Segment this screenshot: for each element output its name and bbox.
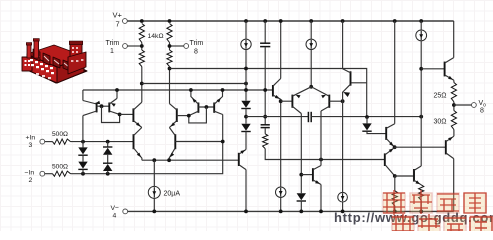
transistor Q2 bar bbox=[108, 103, 110, 113]
transistor Q3 bar bbox=[132, 108, 134, 122]
junction rail / C1 bbox=[263, 19, 267, 23]
wire between D5 D6 bbox=[245, 109, 247, 124]
wire Q18 emitter diagonal bbox=[446, 136, 454, 142]
junction trim8 node bbox=[168, 44, 172, 48]
svg-text:4: 4 bbox=[113, 212, 117, 219]
wire Q10 emitter diagonal bbox=[239, 150, 246, 155]
wire diode col1 c bbox=[82, 169, 84, 173]
wire Q2 up to rail bbox=[116, 90, 118, 98]
junction rail / Q14 column bbox=[393, 19, 397, 23]
transistor Q4 bar bbox=[176, 108, 178, 122]
resistor R4 lower (trim right) bbox=[167, 50, 172, 67]
transistor Q18 bar bbox=[445, 140, 447, 154]
junction rail / I3 bbox=[309, 19, 313, 23]
wire trim8 to R2 bbox=[170, 45, 185, 47]
wire Q9 collector diagonal bbox=[273, 79, 281, 87]
junction Q12 base / Q13 emitter bbox=[341, 99, 345, 103]
junction node A bbox=[118, 113, 122, 117]
svg-text:20µA: 20µA bbox=[164, 191, 181, 198]
wire Q13 base tap bbox=[351, 82, 367, 84]
transistor Q11 bar bbox=[291, 95, 293, 108]
resistor R9 bbox=[419, 185, 424, 201]
wire Q9 emitter diagonal bbox=[273, 95, 281, 99]
wire Q7-Q8 base tie bbox=[198, 106, 214, 108]
junction y=83.5 / current source column bbox=[244, 82, 248, 86]
wire to Q19 base bbox=[421, 68, 444, 70]
junction top rail / R2 bbox=[168, 19, 172, 23]
wire Q7 collector to rail bbox=[191, 90, 199, 104]
wire Q4 collector diagonal bbox=[169, 104, 176, 110]
resistor R11 30ohm bbox=[451, 111, 456, 130]
diode D5 bbox=[241, 101, 250, 108]
wire to Vo pin bbox=[454, 104, 472, 106]
wire down to R8 bbox=[394, 176, 396, 191]
svg-text:7: 7 bbox=[116, 20, 120, 29]
capacitor C1 bbox=[260, 42, 270, 44]
junction Q6 base / -In riser bbox=[221, 140, 225, 144]
junction R4 bottom / bias line bbox=[168, 67, 172, 71]
junction Q2 collector / rail bbox=[115, 88, 119, 92]
current source I4 bbox=[276, 187, 286, 197]
wire comp node to D7 bbox=[366, 117, 368, 123]
wire Q2 emitter diagonal bbox=[109, 98, 117, 104]
junction output node bbox=[452, 103, 456, 107]
svg-text:8: 8 bbox=[194, 49, 198, 56]
transistor Q7 bar bbox=[197, 103, 199, 113]
wire I2 down bbox=[245, 49, 247, 100]
wire Q18 collector diagonal bbox=[446, 153, 454, 159]
wire Q15 collector diagonal bbox=[385, 164, 395, 176]
wire Q12 base bbox=[329, 100, 342, 102]
wire Q3 emitter diagonal bbox=[133, 121, 141, 128]
wire Q16 emitter diagonal bbox=[313, 180, 321, 185]
wire bias line y=68.5 to diode column bbox=[170, 69, 367, 118]
transistor Q13 bar bbox=[350, 71, 352, 85]
terminal Trim pin 1 bbox=[123, 44, 128, 49]
wire Q12 collector diagonal bbox=[321, 106, 329, 111]
wire Q11 emitter diagonal bbox=[292, 87, 311, 96]
wire +In line to Q5 base bbox=[71, 141, 134, 143]
wire +In lead bbox=[45, 141, 53, 143]
transistor Q1 bar bbox=[96, 103, 98, 113]
wire base-collector loop Q1Q2 bbox=[102, 106, 120, 122]
wire Q4 base to node B bbox=[177, 115, 189, 117]
transistor Q17 bar bbox=[413, 169, 415, 182]
arrow Q1 emitter bbox=[95, 101, 100, 104]
wire C3 to R7 bbox=[264, 128, 266, 134]
wire Q5 emitter diagonal bbox=[134, 148, 142, 160]
transistor Q8 bar bbox=[213, 103, 215, 113]
transistor Q6 bar bbox=[174, 134, 176, 149]
wire rail down to bias node bbox=[342, 21, 344, 69]
resistor R10 25ohm bbox=[451, 83, 456, 102]
terminal V+ pin 7 bbox=[123, 19, 128, 24]
diode D4 (up) bbox=[103, 162, 112, 164]
junction y=159.5 / Q11 collector bbox=[319, 158, 323, 162]
junction D8 / V- rail bbox=[299, 210, 303, 214]
current source I6 bbox=[338, 192, 348, 202]
wire rail to I2 bbox=[245, 21, 247, 39]
arrow Q2 emitter bbox=[111, 103, 116, 107]
wire R1 mid bbox=[141, 43, 143, 51]
junction comp line / x=421 column bbox=[419, 115, 423, 119]
capacitor C3 bbox=[261, 124, 270, 126]
junction I6 / V- rail bbox=[341, 210, 345, 214]
wire to Q18 base bbox=[395, 146, 446, 148]
transistor Q5 bar bbox=[133, 134, 135, 149]
wire V+ top rail bbox=[127, 20, 454, 22]
diode D1 (down) bbox=[78, 147, 87, 154]
junction emitter line / tail source bbox=[152, 158, 156, 162]
junction tail source / V- rail bbox=[152, 210, 156, 214]
wire Q8 emitter diagonal bbox=[214, 111, 223, 114]
junction Q8 / rail bbox=[221, 88, 225, 92]
junction base tie node bbox=[100, 104, 104, 108]
arrow Q12 emitter bbox=[321, 95, 326, 99]
wire to tail source bbox=[153, 160, 155, 186]
wire diode col2 c bbox=[107, 171, 109, 174]
wire Q17 emitter diagonal bbox=[414, 180, 421, 185]
junction R8 / V- rail bbox=[393, 210, 397, 214]
arrow Q14 emitter bbox=[389, 142, 394, 146]
wire node A to Q3 base bbox=[120, 113, 134, 115]
svg-text:30Ω: 30Ω bbox=[434, 119, 447, 126]
wire to Q16 base bbox=[301, 174, 313, 176]
wire Q14 emitter diagonal bbox=[386, 139, 394, 148]
wire rail to C1 bbox=[264, 21, 266, 43]
junction node B bbox=[187, 114, 191, 118]
wire Q19 collector diagonal bbox=[445, 58, 454, 64]
transistor Q15 bar bbox=[384, 153, 386, 166]
wire column x=142 down to Q3 collector bbox=[141, 67, 143, 103]
wire V- bottom rail bbox=[127, 210, 453, 212]
arrow Q9 emitter bbox=[275, 95, 280, 99]
wire rail to I3 bbox=[310, 21, 312, 39]
svg-text:+In: +In bbox=[26, 135, 36, 142]
current source I2 bbox=[241, 39, 251, 49]
wire tail source to V- bbox=[153, 198, 155, 211]
wire Q12 collector down bbox=[320, 111, 322, 166]
wire Q11 collector diagonal bbox=[292, 106, 301, 113]
resistor R3 lower (trim left) bbox=[139, 50, 144, 67]
wire Q3 collector diagonal bbox=[133, 102, 141, 110]
watermark red glyphs row 1 bbox=[383, 190, 486, 215]
svg-text:Trim: Trim bbox=[106, 40, 120, 47]
wire column x=169 down to Q4 collector bbox=[169, 67, 171, 104]
watermark red glyphs row 2 (clipped) bbox=[392, 214, 492, 236]
resistor R7 bbox=[263, 134, 268, 149]
junction I4 / V- rail bbox=[279, 210, 283, 214]
wire Q6 collector diagonal bbox=[169, 128, 175, 136]
svg-text:2: 2 bbox=[29, 177, 33, 184]
wire R10 to output node bbox=[453, 102, 455, 111]
wire Q12 emitter diagonal bbox=[311, 87, 329, 96]
junction -In / diode column 1 bbox=[81, 172, 85, 176]
resistor R6 500ohm (-In) bbox=[53, 171, 71, 176]
junction C1 column / comp line bbox=[263, 115, 267, 119]
wire Q8 collector to rail bbox=[214, 90, 222, 104]
junction diode column / comp line bbox=[244, 115, 248, 119]
arrow Q16 emitter bbox=[315, 180, 320, 184]
wire I6 to V- bbox=[342, 202, 344, 211]
wire comp line left bbox=[246, 116, 308, 118]
wire diode col2 b bbox=[107, 155, 109, 163]
wire Q4 emitter diagonal bbox=[169, 121, 176, 128]
svg-text:500Ω: 500Ω bbox=[52, 163, 68, 170]
junction Q10 / V- rail bbox=[244, 210, 248, 214]
arrow Q13 emitter bbox=[343, 92, 350, 97]
wire R9 to V- bbox=[420, 200, 422, 211]
diode D3 (up) bbox=[103, 146, 112, 148]
diode D6 bbox=[241, 124, 250, 131]
wire Q10 collector diagonal bbox=[239, 165, 246, 170]
wire Q1 emitter diagonal bbox=[83, 101, 97, 105]
junction Q7 / rail bbox=[189, 88, 193, 92]
wire rail to I5 bbox=[420, 21, 422, 30]
wire I3 to pair emitters bbox=[310, 49, 312, 87]
junction -In / diode column 2 bbox=[106, 172, 110, 176]
diode D2 (down) bbox=[78, 162, 87, 169]
arrow Q3 emitter bbox=[136, 122, 141, 126]
diode D7 bbox=[362, 123, 371, 130]
svg-text:14kΩ: 14kΩ bbox=[148, 33, 164, 40]
arrow Q11 emitter bbox=[296, 95, 301, 99]
transistor Q16 bar bbox=[312, 168, 314, 181]
wire Q2 collector diagonal bbox=[109, 111, 119, 114]
wire diode col1 b bbox=[82, 155, 84, 161]
resistor R5 500ohm (+In) bbox=[53, 139, 71, 144]
junction driver output node bbox=[393, 145, 397, 149]
arrow Q19 emitter bbox=[448, 76, 453, 80]
junction rail / Q13 column bbox=[341, 19, 345, 23]
svg-text:3: 3 bbox=[29, 142, 33, 149]
wire Q19 emitter to R10 bbox=[453, 80, 455, 82]
svg-text:V+: V+ bbox=[113, 11, 123, 20]
junction I2 / bias line bbox=[244, 67, 248, 71]
terminal +In pin 3 bbox=[40, 139, 45, 144]
junction top rail / R1 bbox=[140, 19, 144, 23]
junction +In / diode column 1 bbox=[81, 140, 85, 144]
current source I3 bbox=[306, 39, 316, 49]
wire Q1-Q2 base tie bbox=[97, 105, 110, 107]
wire diode col1 a bbox=[82, 142, 84, 148]
wire D6 to Q10 bbox=[245, 132, 247, 150]
arrow Q10 emitter bbox=[240, 150, 245, 154]
wire Q6 emitter diagonal bbox=[169, 148, 175, 160]
current source I1 20uA bbox=[148, 186, 160, 198]
wire to Q17 base bbox=[395, 175, 414, 177]
wire rail to Q14 collector bbox=[394, 21, 396, 124]
junction +In / diode column 2 bbox=[106, 140, 110, 144]
wire Q14 collector diagonal bbox=[386, 124, 395, 129]
junction column / collector rail bbox=[244, 88, 248, 92]
wire Q12 base column down to I6 bbox=[342, 101, 344, 192]
junction rail / Q9 bbox=[279, 19, 283, 23]
wire Q15 emitter diagonal bbox=[385, 148, 395, 155]
wire R11 to Q18 emitter bbox=[453, 130, 455, 137]
arrow Q17 emitter bbox=[415, 180, 420, 184]
wire R2 mid bbox=[169, 43, 171, 51]
wire Q11 collector column bbox=[300, 114, 302, 194]
wire C1 down through rails bbox=[264, 47, 266, 124]
arrow Q15 emitter bbox=[389, 148, 394, 152]
wire Q16 collector diagonal bbox=[313, 166, 321, 170]
wire D8 to V- bbox=[300, 201, 302, 212]
wire R7 to Q15 base line y=159.5 bbox=[265, 149, 385, 160]
resistor R1 upper (trim left) bbox=[139, 24, 144, 43]
wire Q19 emitter diagonal bbox=[445, 75, 454, 80]
resistor R2 upper (trim right) bbox=[167, 24, 172, 43]
terminal Vo pin 8 bbox=[472, 103, 477, 108]
wire trim1 to R1 bbox=[127, 45, 142, 47]
junction Q6 emitter bbox=[167, 158, 171, 162]
resistor R8 bbox=[392, 191, 397, 206]
wire D7 to Q14 base bbox=[367, 131, 386, 133]
wire rail to Q9 collector bbox=[280, 21, 282, 79]
junction trim1 node bbox=[140, 44, 144, 48]
wire Q11 base bbox=[281, 100, 293, 102]
wire Q13 collector diagonal bbox=[343, 69, 351, 73]
transistor Q9 bar bbox=[272, 85, 274, 97]
wire Q9 emitter down to I4 bbox=[280, 99, 282, 187]
arrow Q6 emitter bbox=[170, 153, 174, 158]
transistor Q12 bar bbox=[328, 95, 330, 108]
junction R9 / V- rail bbox=[419, 210, 423, 214]
wire diode col2 a bbox=[107, 142, 109, 147]
terminal Trim pin 8 bbox=[184, 44, 189, 49]
wire first stage collector rail y=90 bbox=[83, 89, 273, 91]
junction rail / I5 bbox=[419, 19, 423, 23]
transistor Q14 bar bbox=[385, 127, 387, 140]
wire bias line y=83.5 bbox=[142, 83, 246, 85]
logo red factory bbox=[22, 39, 87, 84]
junction C1 column / collector rail bbox=[263, 88, 267, 92]
terminal V- pin 4 bbox=[123, 209, 128, 214]
current source I5 bbox=[416, 30, 427, 41]
svg-text:8: 8 bbox=[480, 108, 484, 115]
wire rail end down to Q19 collector bbox=[453, 21, 455, 58]
wire emitter line y=160 to Q10 base bbox=[142, 159, 239, 161]
svg-text:1: 1 bbox=[110, 48, 114, 55]
wire rail corner to Q1 bbox=[82, 90, 84, 101]
wire Q7 emitter to node B bbox=[189, 111, 199, 115]
arrow Q18 emitter bbox=[448, 137, 453, 141]
svg-text:500Ω: 500Ω bbox=[52, 131, 68, 138]
junction rail / I2 bbox=[244, 19, 248, 23]
wire Q1 collector diagonal bbox=[83, 111, 97, 116]
svg-text:25Ω: 25Ω bbox=[434, 93, 447, 100]
wire -In line wrapping up to Q6 base node bbox=[71, 115, 223, 174]
junction Q16 / V- rail bbox=[319, 210, 323, 214]
junction Q9 emitter / 2nd stage base bbox=[279, 99, 283, 103]
wire Q18 collector to V- rail end bbox=[453, 159, 455, 212]
wire Q5 collector diagonal bbox=[134, 128, 142, 136]
arrow Q5 emitter bbox=[137, 153, 141, 158]
junction Q16 base tap bbox=[299, 173, 303, 177]
arrow Q7 bbox=[192, 98, 196, 103]
wire -In lead bbox=[45, 173, 53, 175]
svg-text:−In: −In bbox=[25, 170, 35, 177]
terminal -In pin 2 bbox=[40, 171, 45, 176]
capacitor C2 (series) bbox=[307, 112, 309, 122]
arrow Q8 bbox=[217, 98, 221, 103]
wire R8 to V- bbox=[394, 206, 396, 212]
junction I5 / Q19 base bbox=[419, 67, 423, 71]
wire I5 column down to Q17 bbox=[420, 40, 422, 166]
diode D8 bbox=[297, 193, 306, 200]
wire Q10 collector to V- bbox=[245, 170, 247, 212]
svg-text:Trim: Trim bbox=[190, 40, 204, 47]
wire Q16 emitter to V- bbox=[320, 185, 322, 212]
junction R3 bottom line bbox=[140, 82, 144, 86]
wire comp line right bbox=[311, 116, 421, 118]
svg-text:V−: V− bbox=[111, 205, 120, 212]
junction pair emitter node bbox=[309, 85, 313, 89]
wire Q6 base line bbox=[175, 141, 222, 143]
wire I4 to V- bbox=[280, 197, 282, 211]
wire Q13 emitter diagonal down bbox=[343, 84, 351, 101]
arrow Q4 emitter bbox=[171, 122, 176, 126]
transistor Q19 bar bbox=[444, 62, 446, 77]
junction Q15 collector node bbox=[393, 174, 397, 178]
junction Q7Q8 base node bbox=[205, 105, 209, 109]
wire Q17 collector diagonal bbox=[414, 166, 421, 170]
wire Q7Q8 base loop to node B bbox=[189, 107, 207, 123]
wire Q1 collector down to +In bbox=[82, 116, 84, 142]
junction comp line / diode column bbox=[365, 115, 369, 119]
transistor Q10 bar bbox=[238, 153, 240, 166]
